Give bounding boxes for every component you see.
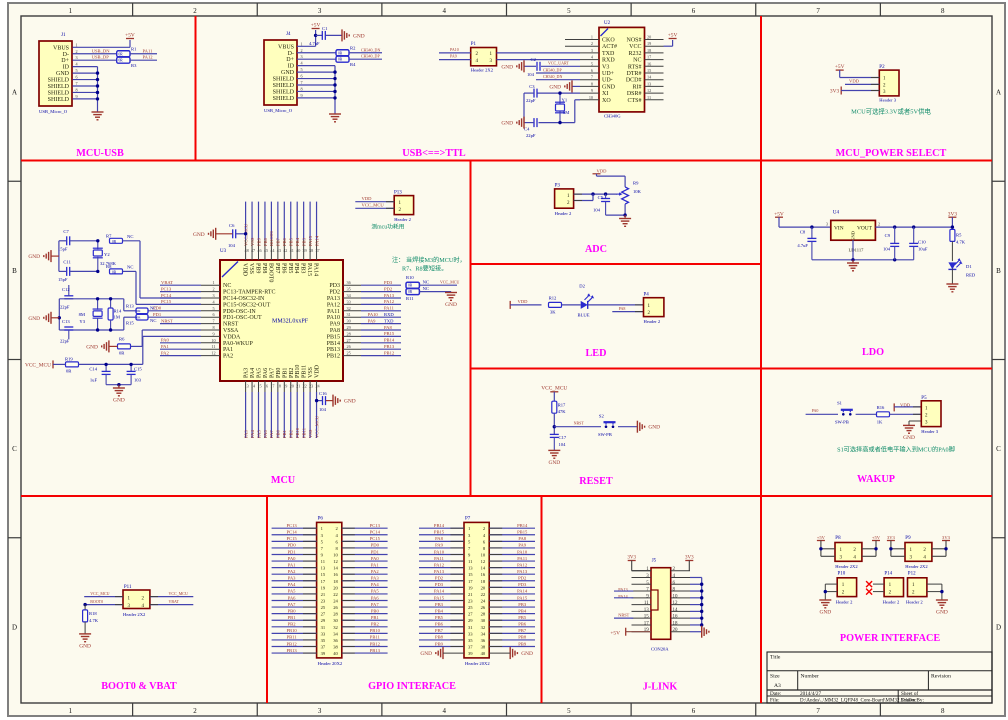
svg-text:PC14: PC14 <box>370 530 381 535</box>
svg-text:5: 5 <box>591 61 593 66</box>
svg-text:PA2: PA2 <box>288 569 296 574</box>
capacitor C9 <box>893 225 896 228</box>
svg-text:C15: C15 <box>134 366 142 371</box>
svg-text:PB11: PB11 <box>370 635 381 640</box>
wire c7 rail <box>59 240 67 242</box>
svg-text:PB3: PB3 <box>435 602 444 607</box>
svg-text:PA13: PA13 <box>384 293 395 298</box>
svg-text:PA8: PA8 <box>619 306 626 311</box>
svg-text:10: 10 <box>211 338 215 343</box>
svg-text:PD3: PD3 <box>384 280 393 285</box>
svg-text:PB1: PB1 <box>282 368 288 378</box>
svg-text:R9: R9 <box>633 181 639 186</box>
svg-text:35: 35 <box>347 287 351 292</box>
svg-text:USB_Micro_O: USB_Micro_O <box>39 109 68 114</box>
ground <box>701 626 703 638</box>
svg-text:VDD: VDD <box>849 78 860 83</box>
svg-text:PB10: PB10 <box>295 427 300 438</box>
svg-text:7: 7 <box>212 319 214 324</box>
svg-text:12: 12 <box>647 88 651 93</box>
wire gnd <box>690 583 702 585</box>
svg-text:17: 17 <box>647 55 651 60</box>
wire PA2 <box>342 573 388 575</box>
wire mcu right <box>361 291 401 293</box>
svg-text:29: 29 <box>321 618 326 623</box>
svg-text:GPIO INTERFACE: GPIO INTERFACE <box>368 681 456 692</box>
svg-text:VBAT: VBAT <box>169 599 180 604</box>
pin stub <box>343 348 361 350</box>
wire PB4 <box>419 613 464 615</box>
svg-text:VSS: VSS <box>250 237 255 246</box>
wire mcu bottom <box>251 392 253 438</box>
svg-text:PC15: PC15 <box>370 536 381 541</box>
svg-text:29: 29 <box>468 618 473 623</box>
svg-text:6: 6 <box>212 312 214 317</box>
wire PA1 <box>342 567 388 569</box>
svg-text:注： 当焊接M3的MCU时，: 注： 当焊接M3的MCU时， <box>392 256 466 264</box>
svg-text:Header 20X2: Header 20X2 <box>318 661 343 666</box>
wire 3v3 <box>951 217 953 229</box>
wire led to gnd <box>951 269 953 284</box>
svg-text:CH340_DN: CH340_DN <box>361 47 380 52</box>
svg-text:PA11: PA11 <box>517 556 528 561</box>
pin stub <box>201 342 220 344</box>
svg-text:PC14-OSC32-IN: PC14-OSC32-IN <box>223 296 265 302</box>
svg-text:0R: 0R <box>66 369 72 374</box>
svg-text:PB7: PB7 <box>518 628 527 633</box>
svg-text:PA6: PA6 <box>288 595 296 600</box>
svg-text:PB7: PB7 <box>274 263 280 273</box>
svg-text:38: 38 <box>333 645 338 650</box>
svg-text:2: 2 <box>212 287 214 292</box>
ground <box>624 215 626 218</box>
pin stub <box>201 310 220 312</box>
wire gnd <box>690 610 702 612</box>
svg-text:18: 18 <box>333 579 338 584</box>
wire R2 out <box>349 52 382 54</box>
svg-text:R17: R17 <box>558 403 566 408</box>
wire PB9 <box>419 646 464 648</box>
svg-text:10K: 10K <box>633 189 642 194</box>
svg-text:PA8: PA8 <box>330 328 340 334</box>
svg-text:C12: C12 <box>62 287 70 292</box>
svg-text:CH340_DP: CH340_DP <box>361 54 380 59</box>
svg-text:PD1: PD1 <box>371 549 380 554</box>
svg-text:ACT#: ACT# <box>602 44 617 50</box>
svg-text:MM32L0xxPF: MM32L0xxPF <box>272 319 309 325</box>
svg-text:13: 13 <box>321 566 326 571</box>
svg-text:26: 26 <box>333 605 338 610</box>
wire PB1 <box>272 619 317 621</box>
wire PC14 <box>342 534 388 536</box>
pin stub <box>645 45 664 47</box>
svg-text:DSR#: DSR# <box>627 91 642 97</box>
wire vdd p5 <box>894 406 921 408</box>
wire P3.1 to wiper <box>574 193 617 195</box>
svg-text:VCC: VCC <box>629 44 641 50</box>
pin stub <box>201 284 220 286</box>
capacitor C12 <box>64 295 73 297</box>
wire vdd to pot <box>596 174 598 176</box>
wire mcu top <box>277 202 279 240</box>
svg-text:9: 9 <box>591 88 593 93</box>
svg-text:R2: R2 <box>350 45 356 50</box>
wire PA3 <box>342 580 388 582</box>
svg-text:DTR#: DTR# <box>627 71 642 77</box>
wire mcu right <box>361 297 401 299</box>
LED D2 <box>581 301 588 309</box>
svg-text:PA9: PA9 <box>518 543 526 548</box>
svg-text:PB1: PB1 <box>288 615 297 620</box>
svg-text:14: 14 <box>481 566 486 571</box>
wire mcu left <box>160 291 201 293</box>
svg-text:R232: R232 <box>628 51 641 57</box>
svg-text:3V3: 3V3 <box>830 89 840 95</box>
wire PB4 <box>489 613 535 615</box>
wire C3-C4 left bus <box>524 92 534 94</box>
svg-text:PA11: PA11 <box>327 309 340 315</box>
svg-text:PA12: PA12 <box>434 562 445 567</box>
svg-text:PB5: PB5 <box>287 263 293 273</box>
svg-text:Y2: Y2 <box>104 252 110 257</box>
svg-text:PA8: PA8 <box>518 536 526 541</box>
svg-text:PA4: PA4 <box>250 368 256 378</box>
pin stub <box>645 59 664 61</box>
svg-text:3V3: 3V3 <box>685 556 694 561</box>
svg-text:25: 25 <box>321 605 326 610</box>
svg-text:103: 103 <box>134 378 142 383</box>
svg-text:XO: XO <box>602 98 611 104</box>
potentiometer R9 <box>622 187 629 204</box>
svg-text:VDD: VDD <box>597 169 608 174</box>
wire rail to R15 <box>123 317 125 330</box>
pin stub <box>283 381 285 392</box>
svg-text:R11: R11 <box>406 296 414 301</box>
pin stub <box>296 240 298 260</box>
wire R3 to PA12 <box>130 59 157 61</box>
svg-text:GND: GND <box>819 610 831 616</box>
wire PA4 <box>272 586 317 588</box>
switch S1 <box>842 413 845 416</box>
wire PA3 <box>272 580 317 582</box>
svg-text:Header 20X2: Header 20X2 <box>465 661 490 666</box>
power +5V <box>836 69 844 71</box>
wire mcu top <box>251 202 253 240</box>
wire PC15 <box>342 540 388 542</box>
svg-text:VSS: VSS <box>308 367 314 378</box>
svg-text:PA9: PA9 <box>450 54 457 59</box>
capacitor C4 <box>533 118 535 127</box>
wire mcu bottom <box>309 392 311 438</box>
svg-text:GND: GND <box>193 232 205 238</box>
svg-text:PB3: PB3 <box>301 237 306 246</box>
svg-text:28: 28 <box>333 612 338 617</box>
wire PA12 <box>489 567 535 569</box>
svg-text:27: 27 <box>321 612 326 617</box>
svg-text:PA3: PA3 <box>371 576 379 581</box>
svg-text:24: 24 <box>333 599 338 604</box>
svg-text:SHIELD: SHIELD <box>48 90 70 96</box>
pin stub <box>343 291 361 293</box>
svg-text:5: 5 <box>567 707 571 715</box>
svg-text:VSS: VSS <box>248 263 254 274</box>
svg-text:PB11: PB11 <box>301 427 306 438</box>
svg-text:PB14: PB14 <box>327 341 340 347</box>
svg-text:3: 3 <box>212 293 214 298</box>
svg-text:DCD#: DCD# <box>626 78 642 84</box>
wire mcu top <box>290 202 292 240</box>
svg-text:+5V: +5V <box>125 32 135 38</box>
svg-text:31: 31 <box>347 312 351 317</box>
svg-text:XI: XI <box>602 91 608 97</box>
svg-text:GND: GND <box>903 435 915 441</box>
svg-text:PA13: PA13 <box>327 296 340 302</box>
svg-text:22pF: 22pF <box>60 305 70 310</box>
wire c11 rail <box>59 270 67 272</box>
svg-text:PD1: PD1 <box>288 549 297 554</box>
svg-text:C6: C6 <box>229 223 235 228</box>
svg-text:GND: GND <box>79 643 91 649</box>
svg-text:BOOT0: BOOT0 <box>267 263 273 282</box>
svg-text:3: 3 <box>826 222 828 227</box>
svg-text:12: 12 <box>673 601 679 606</box>
pin stub <box>201 329 220 331</box>
wire PA10 <box>489 553 535 555</box>
svg-text:PA10: PA10 <box>327 315 340 321</box>
wire cap gnd rail <box>106 384 131 386</box>
wire V3 <box>541 65 580 67</box>
svg-text:7: 7 <box>76 81 78 86</box>
power VCC_MCU <box>52 360 54 368</box>
svg-text:PB1: PB1 <box>282 429 287 438</box>
wire C2 to GND <box>524 65 536 67</box>
wire ID to ground bus <box>297 65 335 67</box>
ground <box>548 449 560 451</box>
svg-text:16: 16 <box>647 61 651 66</box>
wire R1 to PA11 <box>130 53 157 55</box>
power +5V <box>315 30 317 35</box>
svg-text:10: 10 <box>333 552 338 557</box>
wire mcu right <box>361 284 401 286</box>
wire P3.2 <box>574 200 593 202</box>
capacitor C13 <box>64 326 73 328</box>
pin stub <box>343 342 361 344</box>
wire mcu bottom <box>245 392 247 438</box>
wire ID to ground bus <box>73 66 98 68</box>
wire C6 <box>236 233 246 235</box>
wire mcu left <box>160 348 201 350</box>
svg-text:P10: P10 <box>838 571 846 576</box>
svg-text:R5: R5 <box>956 233 962 238</box>
svg-text:R10: R10 <box>406 275 414 280</box>
svg-text:U3: U3 <box>220 249 227 254</box>
svg-text:40: 40 <box>481 651 486 656</box>
svg-text:C3: C3 <box>529 84 535 89</box>
svg-text:LED: LED <box>586 348 607 359</box>
wire PB10 <box>342 632 388 634</box>
svg-text:NC: NC <box>150 318 156 323</box>
svg-text:R8: R8 <box>106 264 112 269</box>
wire R4 out <box>349 58 382 60</box>
wire D- to R2 <box>297 52 336 54</box>
svg-text:6: 6 <box>76 75 78 80</box>
pin stub <box>645 92 664 94</box>
svg-text:R15: R15 <box>126 320 134 325</box>
svg-text:PC14: PC14 <box>161 293 172 298</box>
wire gnd <box>690 597 702 599</box>
svg-text:1M: 1M <box>114 315 120 320</box>
wire to C1 <box>316 34 322 36</box>
svg-text:VBUS: VBUS <box>278 44 294 50</box>
svg-text:J1: J1 <box>61 33 66 38</box>
border row ticks and letters <box>8 180 21 182</box>
resistor R8 <box>110 269 123 274</box>
wire PA10 <box>439 52 471 54</box>
svg-text:0R: 0R <box>338 58 343 62</box>
svg-text:PD3: PD3 <box>329 283 340 289</box>
svg-text:Revision: Revision <box>931 674 951 680</box>
svg-text:2: 2 <box>76 49 78 54</box>
svg-text:0R: 0R <box>408 290 413 294</box>
svg-text:J5: J5 <box>652 559 657 564</box>
wire PB14 <box>489 527 535 529</box>
svg-text:GND: GND <box>501 121 513 127</box>
svg-text:PA1: PA1 <box>161 344 169 349</box>
svg-text:16: 16 <box>673 615 679 620</box>
wire C16 to gnd <box>326 400 333 402</box>
svg-text:25: 25 <box>347 351 351 356</box>
wire gnd <box>690 604 702 606</box>
svg-text:GND: GND <box>549 84 561 90</box>
svg-text:VDD: VDD <box>315 364 321 378</box>
svg-text:PB15: PB15 <box>434 530 445 535</box>
svg-text:14: 14 <box>333 566 338 571</box>
wire vcc rail <box>53 363 66 365</box>
capacitor C3 <box>533 89 535 98</box>
ground <box>118 385 120 388</box>
svg-text:+5V: +5V <box>668 32 678 38</box>
pin stub <box>565 39 599 41</box>
svg-text:29: 29 <box>347 325 351 330</box>
svg-text:NRST: NRST <box>574 421 585 426</box>
wire switch to gnd <box>618 426 637 428</box>
svg-text:2: 2 <box>878 222 880 227</box>
bottom rail <box>812 259 914 261</box>
svg-text:14: 14 <box>673 608 679 613</box>
power +5V <box>126 38 134 40</box>
wire mcu bottom <box>277 392 279 438</box>
svg-text:Header 2X2: Header 2X2 <box>471 68 494 73</box>
pin stub <box>565 45 599 47</box>
svg-text:VOUT: VOUT <box>857 226 873 232</box>
svg-text:P2: P2 <box>879 65 885 70</box>
svg-text:PB14: PB14 <box>517 523 528 528</box>
svg-text:37: 37 <box>468 645 473 650</box>
pin stub <box>580 92 599 94</box>
svg-text:PA10: PA10 <box>434 549 445 554</box>
svg-text:30: 30 <box>333 618 338 623</box>
pin stub <box>270 381 272 392</box>
svg-text:34: 34 <box>481 631 486 636</box>
svg-text:PA7: PA7 <box>371 602 379 607</box>
svg-text:+5V: +5V <box>610 630 620 636</box>
svg-text:Header 2: Header 2 <box>906 599 923 604</box>
gnd bus right <box>701 577 703 631</box>
pin stub left <box>632 624 652 626</box>
svg-text:Size: Size <box>770 674 780 680</box>
svg-text:19: 19 <box>468 585 473 590</box>
svg-text:PB13: PB13 <box>384 344 395 349</box>
wire UD- <box>536 79 580 81</box>
svg-text:PC13: PC13 <box>286 523 297 528</box>
pin stub <box>343 297 361 299</box>
svg-text:17: 17 <box>468 579 473 584</box>
svg-text:C13: C13 <box>62 319 70 324</box>
wire mcu bottom <box>270 392 272 438</box>
svg-text:9: 9 <box>212 331 214 336</box>
wire shield pin <box>73 85 98 87</box>
ground <box>79 633 91 635</box>
svg-text:A3: A3 <box>774 683 781 689</box>
resistor R17 <box>552 401 557 413</box>
capacitor C5 <box>605 194 607 198</box>
svg-text:3K: 3K <box>550 310 556 315</box>
svg-text:GND: GND <box>521 651 533 657</box>
pin stub right <box>671 604 690 606</box>
ground <box>51 317 59 319</box>
svg-text:GND: GND <box>548 460 560 466</box>
svg-text:VDD: VDD <box>518 299 529 304</box>
svg-text:PC15: PC15 <box>286 536 297 541</box>
svg-text:104: 104 <box>527 72 535 77</box>
svg-text:0R: 0R <box>119 59 124 63</box>
svg-text:PB6: PB6 <box>435 622 444 627</box>
svg-text:SHIELD: SHIELD <box>48 78 70 84</box>
junction <box>314 34 317 37</box>
svg-text:PA7: PA7 <box>269 430 274 438</box>
svg-text:47K: 47K <box>558 409 567 414</box>
wire PB3 <box>419 606 464 608</box>
svg-text:D+: D+ <box>61 58 69 64</box>
pin stub right <box>671 583 690 585</box>
svg-text:PD1-OSC-OUT: PD1-OSC-OUT <box>223 315 262 321</box>
svg-text:PA1: PA1 <box>288 562 296 567</box>
wire mcu bottom <box>258 392 260 438</box>
wire GND pin <box>572 85 580 87</box>
svg-text:Header 2: Header 2 <box>836 599 853 604</box>
wire PB3 <box>489 606 535 608</box>
pin stub <box>580 59 599 61</box>
wire shield pin <box>297 84 335 86</box>
wire mcu left <box>160 323 201 325</box>
pin stub left <box>632 604 652 606</box>
pin stub right <box>671 597 690 599</box>
svg-text:R7、R8要短接。: R7、R8要短接。 <box>402 265 447 273</box>
svg-text:A: A <box>996 89 1001 97</box>
svg-text:VCC_MCU: VCC_MCU <box>541 386 567 392</box>
svg-text:D: D <box>996 623 1001 631</box>
svg-text:PB9: PB9 <box>518 641 527 646</box>
svg-text:Header 2X2: Header 2X2 <box>905 564 928 569</box>
svg-text:18: 18 <box>481 579 486 584</box>
pin stub <box>201 323 220 325</box>
svg-text:USB_DP: USB_DP <box>92 55 110 60</box>
svg-text:C14: C14 <box>89 366 97 371</box>
svg-text:C5: C5 <box>598 195 604 200</box>
svg-text:J-LINK: J-LINK <box>643 682 678 693</box>
svg-text:C1: C1 <box>322 26 328 31</box>
pin stub <box>343 355 361 357</box>
